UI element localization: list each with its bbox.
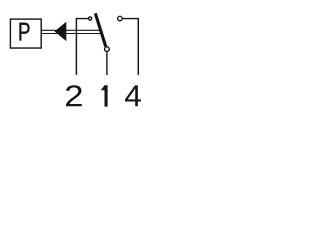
wire terminal 4 xyxy=(123,19,139,75)
pin label 1 xyxy=(101,85,108,106)
actuator arrowhead xyxy=(55,22,67,41)
pin label 4 xyxy=(125,85,141,106)
switch lever xyxy=(95,13,105,46)
pin label 2 xyxy=(66,85,82,106)
pivot circle xyxy=(105,47,110,52)
actuator rod (double line) upper xyxy=(42,29,101,31)
pressure sensor box P xyxy=(10,19,41,48)
wire terminal 1 xyxy=(106,52,108,75)
wire terminal 2 xyxy=(76,19,88,75)
contact circle terminal 4 xyxy=(118,16,123,21)
actuator rod (double line) lower xyxy=(42,33,102,35)
label P xyxy=(19,23,29,41)
contact circle terminal 2 xyxy=(89,17,92,20)
